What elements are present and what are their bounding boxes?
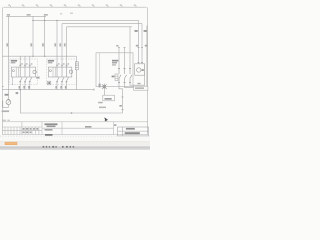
valve label	[99, 84, 101, 88]
aux wire left	[12, 77, 14, 85]
junction dots	[32, 20, 57, 57]
wire number W3	[42, 43, 44, 46]
actuator text	[105, 98, 112, 100]
label below meter	[2, 110, 10, 112]
small label above cable box	[138, 83, 141, 85]
wire number W4	[54, 43, 56, 46]
label above N rail	[99, 107, 106, 109]
node label L1-b	[27, 14, 31, 16]
wire feeder left	[7, 16, 9, 100]
aux block stack	[115, 74, 118, 80]
aux label	[112, 76, 115, 78]
wire pole1 drop	[119, 84, 123, 113]
pole 1	[20, 63, 22, 84]
enclosure G1 dashed box	[10, 59, 38, 85]
wrap wire A	[130, 64, 145, 86]
wire numbers under group2	[55, 86, 66, 89]
device label -Q1	[11, 60, 17, 62]
field block texts	[126, 128, 135, 130]
pole terminals bottom	[56, 81, 68, 83]
title block texts	[23, 123, 117, 133]
pole 3	[30, 63, 32, 84]
cursor glyph	[104, 117, 108, 121]
frame right edge	[147, 7, 149, 134]
title block divider right	[113, 122, 115, 135]
hatched device on enclosure edge	[75, 62, 78, 70]
device label -Q2	[48, 60, 54, 62]
motor M1 label	[142, 69, 144, 71]
aux contact circle	[12, 70, 14, 72]
wire distribution lower	[2, 55, 76, 57]
wire cabinet stub feeds	[119, 27, 130, 68]
node label L1-a	[7, 14, 10, 16]
wire valve drop	[103, 84, 105, 96]
frame column ticks	[11, 5, 137, 7]
wire right drop R2	[141, 24, 143, 64]
wire G1 pole stubs	[20, 56, 30, 62]
pale strip below sheet	[0, 137, 150, 142]
motor M1 circle	[137, 68, 141, 72]
aux section divider	[53, 67, 55, 77]
pole terminals bottom	[19, 81, 31, 83]
frame left edge	[1, 7, 3, 134]
meter arrow	[7, 100, 10, 104]
bus N	[67, 26, 133, 28]
field block right	[118, 127, 149, 136]
wire tap x44.7	[44, 16, 46, 56]
pole 3	[67, 63, 69, 84]
wire numbers under group1	[19, 86, 30, 89]
title text small	[45, 134, 53, 136]
title block columns mid	[22, 122, 62, 135]
labels above title block	[3, 120, 6, 121]
coil circle	[33, 70, 36, 73]
actuator box	[103, 95, 115, 101]
enclosure G2 dashed box	[46, 59, 76, 85]
wrap wire B	[125, 26, 147, 88]
wire number W1	[6, 43, 8, 46]
node label L1-c	[44, 14, 48, 16]
wire tap x33	[32, 16, 34, 56]
scrollbar track	[0, 142, 150, 145]
pole terminals top	[56, 64, 68, 66]
small label between groups	[36, 77, 39, 79]
wire feed G2 pole1	[56, 20, 58, 62]
label left of feeder	[5, 94, 9, 96]
scrollbar thumb orange	[5, 142, 17, 145]
aux section divider	[16, 67, 18, 77]
terminal tick cabinet drop	[121, 97, 123, 110]
supply meter circle	[6, 100, 11, 105]
junction on N rail	[71, 112, 72, 113]
wire drop x20	[20, 90, 122, 113]
wire below meter	[3, 101, 9, 108]
bus L1	[6, 15, 46, 17]
PE rail end tick	[93, 89, 95, 91]
light row below track	[0, 145, 150, 146]
left frame tick	[2, 86, 4, 88]
title block columns left grid	[5, 127, 20, 135]
device label -Q10	[112, 60, 118, 62]
bus L2	[33, 19, 139, 21]
wire number W6	[64, 43, 66, 46]
wires to bottom bus	[57, 83, 67, 89]
cable label box right	[134, 86, 148, 90]
status icons	[43, 146, 75, 148]
title block row mid	[42, 127, 114, 129]
terminal labels right mid	[136, 45, 139, 47]
title block outline	[2, 122, 147, 135]
status gray band	[0, 146, 150, 148]
title block rows left	[2, 127, 42, 131]
wires below cabinet	[104, 26, 147, 114]
wire hatch device down	[75, 70, 77, 90]
wire feed G2 pole3	[66, 27, 68, 63]
wire labels right top	[135, 30, 138, 32]
pole terminals top	[19, 64, 31, 66]
pole top labels	[21, 63, 23, 64]
wire number W5	[59, 43, 61, 46]
pole top labels	[58, 63, 60, 64]
terminal ticks right feeders	[118, 48, 143, 63]
meter top tick	[7, 98, 9, 100]
contactor Q1 body box	[11, 67, 35, 77]
cabinet inner line	[99, 53, 101, 87]
switch Q10 pole 3	[130, 68, 132, 84]
wire drop to hatch device	[75, 56, 77, 62]
aux terminal box	[48, 81, 51, 85]
switch Q10 pole 1	[119, 68, 121, 84]
frame column numbers	[8, 4, 135, 6]
faint label top mid b	[60, 13, 62, 14]
pole terminals	[118, 69, 131, 83]
contactor Q2 body box	[48, 67, 72, 77]
coil circle	[69, 70, 72, 73]
aux contact circle	[49, 70, 51, 72]
label left of cabinet drop	[119, 105, 122, 107]
motor box M1	[135, 64, 145, 75]
sheet background	[0, 0, 150, 150]
wire right drop R1	[138, 20, 140, 64]
wires to bottom bus	[20, 83, 30, 89]
wire number W2	[30, 43, 32, 46]
status bottom strip	[0, 149, 150, 151]
label on drop x20	[16, 92, 19, 94]
pole 2	[62, 63, 64, 84]
junction dot PE rail x20	[20, 89, 21, 90]
cabinet box outer	[96, 53, 133, 87]
bottom bus PE	[2, 89, 94, 91]
sheet bottom dashed ruler	[0, 135, 150, 137]
frame top edge	[4, 6, 147, 8]
wire feed G2 pole2	[61, 24, 63, 63]
bus L3	[62, 23, 142, 25]
wire label below valve	[98, 102, 103, 104]
valve symbol V1	[102, 84, 107, 89]
faint label top mid a	[70, 13, 73, 14]
switch Q10 pole 2	[125, 68, 127, 84]
pole 2	[25, 63, 27, 84]
pole 1	[57, 63, 59, 84]
scrollbar separator	[0, 141, 150, 143]
